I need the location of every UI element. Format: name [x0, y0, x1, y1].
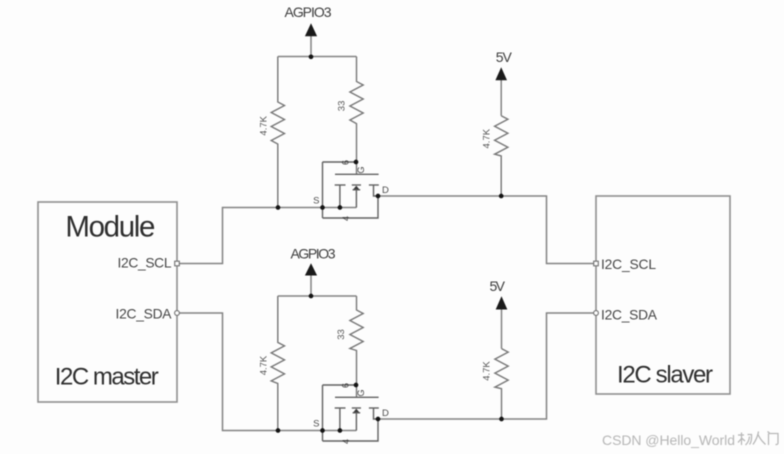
power arrow 5V bottom: [496, 296, 508, 309]
svg-text:D: D: [382, 408, 389, 419]
junction AGPIO3 bottom rail: [309, 294, 314, 299]
watermark CJK 初入门 (drawn strokes): [738, 432, 778, 446]
svg-text:I2C_SDA: I2C_SDA: [116, 306, 173, 321]
junction R1 to SCL low-side net: [276, 205, 281, 210]
svg-text:4.7K: 4.7K: [482, 128, 493, 148]
svg-text:4.7K: 4.7K: [259, 355, 270, 375]
power arrow AGPIO3 top: [305, 23, 317, 36]
svg-text:6: 6: [341, 160, 351, 165]
junction R3 to SCL high-side net: [499, 194, 504, 199]
svg-text:D: D: [382, 185, 389, 196]
svg-text:G: G: [356, 389, 366, 396]
resistor R2 33 (gate series, SCL): [350, 57, 363, 175]
wire 5V bottom arrow stem: [501, 308, 503, 349]
resistor R1 4.7K (AGPIO3 pull-up, SCL): [271, 57, 284, 208]
resistor R5 33 (gate series, SDA): [350, 296, 363, 397]
svg-text:AGPIO3: AGPIO3: [285, 4, 332, 20]
svg-text:G: G: [356, 166, 366, 173]
svg-text:S: S: [313, 196, 319, 207]
wire AGPIO3 bottom rail: [278, 295, 357, 297]
junction Q2 source loop: [320, 428, 325, 433]
resistor R4 4.7K (AGPIO3 pull-up, SDA): [271, 296, 284, 431]
svg-text:33: 33: [337, 101, 348, 112]
svg-text:I2C_SCL: I2C_SCL: [601, 257, 656, 272]
svg-text:33: 33: [336, 329, 347, 340]
junction Q1 drain node: [376, 194, 381, 199]
wire D1 to I2C_SCL of slave: [378, 196, 594, 264]
resistor R3 4.7K (5V pull-up, SCL): [495, 116, 508, 196]
svg-text:5V: 5V: [496, 49, 513, 65]
svg-text:4: 4: [341, 216, 351, 221]
svg-text:I2C_SDA: I2C_SDA: [601, 307, 658, 322]
svg-text:CSDN @Hello_World: CSDN @Hello_World: [602, 432, 735, 448]
svg-text:6: 6: [341, 383, 351, 388]
pin square I2C_SCL right: [594, 261, 599, 266]
junction Q1 source loop: [320, 205, 325, 210]
junction Q2 drain node: [376, 417, 381, 422]
resistor R6 4.7K (5V pull-up, SDA): [495, 349, 508, 419]
svg-text:4.7K: 4.7K: [482, 361, 493, 381]
junction Q2 source finger: [338, 428, 343, 433]
wire 5V top arrow stem: [500, 79, 502, 116]
svg-text:I2C_SCL: I2C_SCL: [118, 256, 172, 271]
junction Q1 gate node: [354, 160, 359, 165]
svg-text:4: 4: [341, 439, 351, 444]
transistor Q2 (NMOS level shifter, SDA): [323, 385, 379, 441]
module box (I2C master): [38, 202, 177, 402]
svg-text:S: S: [313, 419, 319, 430]
wire SCL from module to level shifter: [179, 208, 356, 264]
svg-text:Module: Module: [65, 211, 155, 244]
svg-text:AGPIO3: AGPIO3: [291, 246, 336, 262]
body diode Q1: [353, 186, 359, 190]
wire AGPIO3 top arrow stem: [310, 34, 312, 57]
body diode Q2: [353, 409, 359, 413]
svg-text:4.7K: 4.7K: [259, 115, 270, 135]
pin circle I2C_SDA right: [594, 311, 599, 316]
power arrow AGPIO3 bottom: [305, 263, 317, 275]
slave box (I2C slaver): [596, 196, 730, 394]
svg-text:5V: 5V: [489, 278, 505, 294]
junction Q2 gate node: [354, 383, 359, 388]
transistor Q1 (NMOS level shifter, SCL): [323, 162, 379, 218]
wire D2 to I2C_SDA of slave: [378, 313, 594, 419]
svg-text:I2C slaver: I2C slaver: [617, 362, 713, 389]
pin square I2C_SCL left: [175, 261, 180, 266]
svg-text:I2C master: I2C master: [55, 363, 159, 390]
junction Q1 source finger: [338, 205, 343, 210]
pin circle I2C_SDA left: [175, 311, 180, 316]
wire SDA from module to level shifter: [179, 313, 356, 431]
junction R6 to SDA high-side net: [499, 417, 504, 422]
junction AGPIO3 top rail: [309, 54, 314, 59]
wire AGPIO3 top rail: [278, 56, 357, 58]
power arrow 5V top: [495, 67, 507, 80]
junction R4 to SDA low-side net: [276, 428, 281, 433]
wire AGPIO3 bottom arrow stem: [310, 274, 312, 297]
